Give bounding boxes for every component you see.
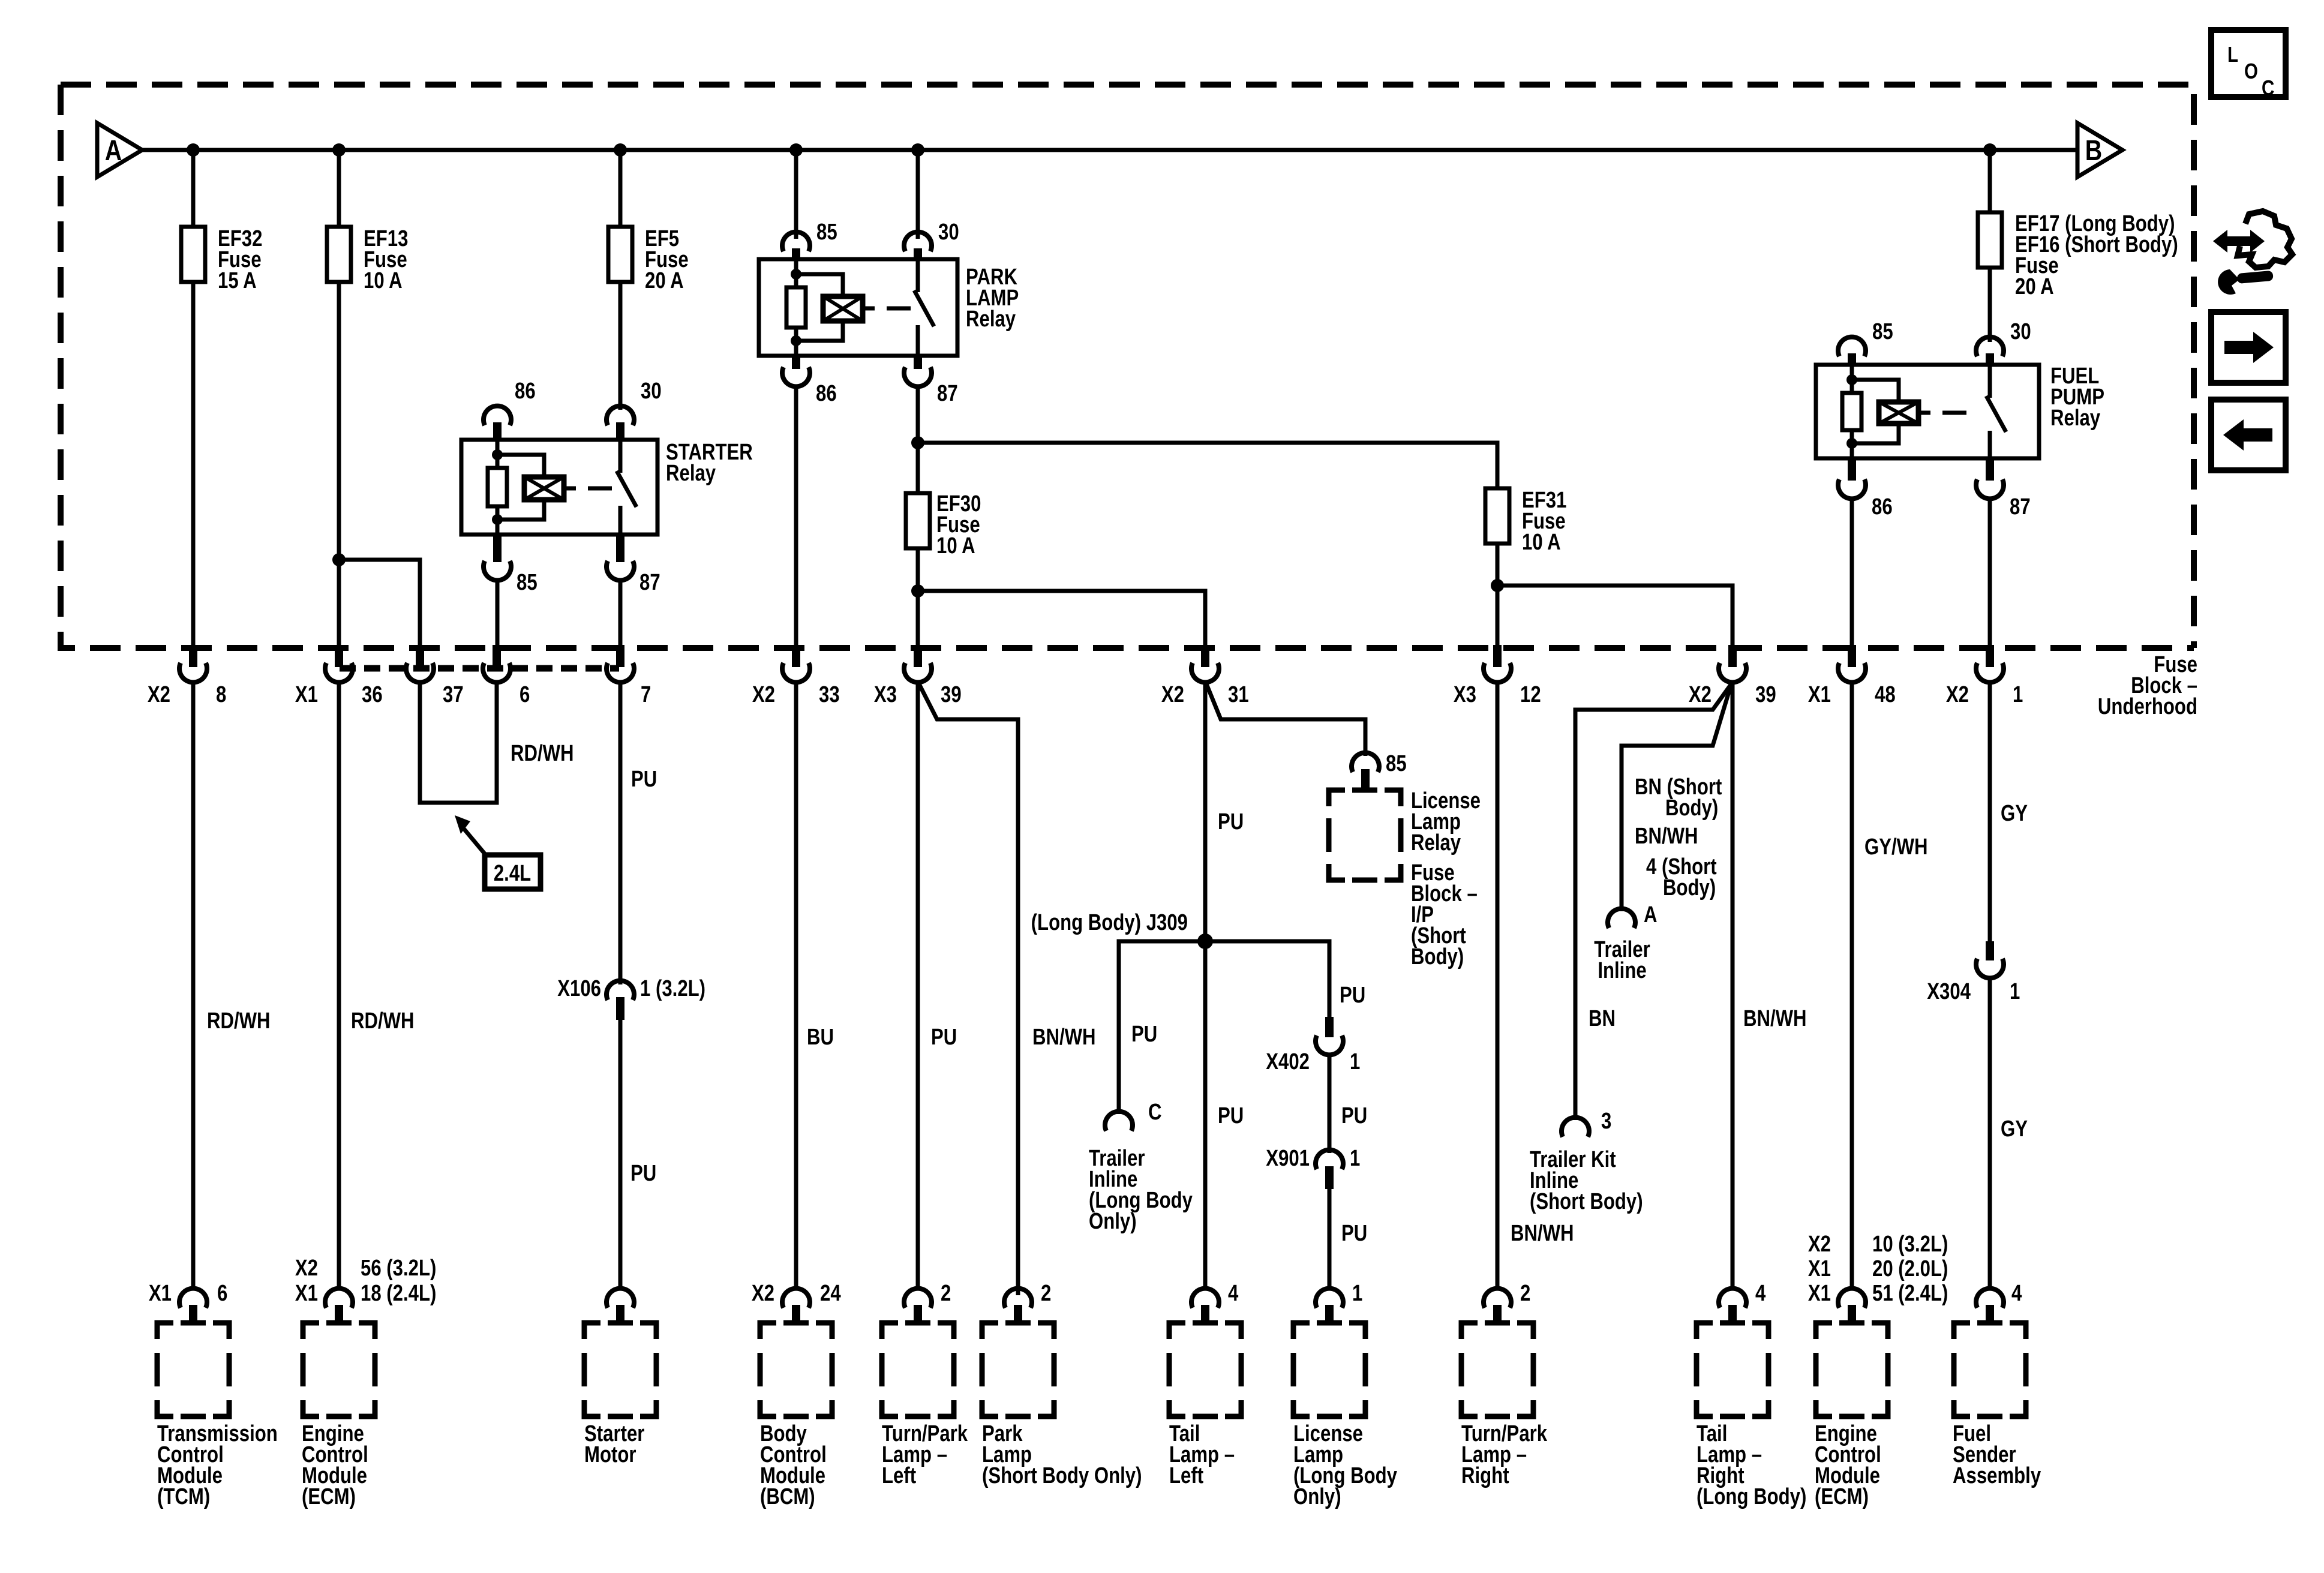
svg-text:37: 37	[443, 682, 464, 707]
svg-text:Left: Left	[1169, 1463, 1203, 1488]
starter relay pin 86 connector	[484, 406, 511, 425]
wire: X2-1 down, GY	[1988, 682, 1992, 941]
svg-text:(BCM): (BCM)	[760, 1484, 815, 1509]
svg-text:BN/WH: BN/WH	[1511, 1221, 1574, 1246]
backward reference arrow box	[2211, 400, 2286, 470]
wire: pin 7 to starter motor, PU	[618, 682, 623, 984]
svg-text:PU: PU	[1218, 1103, 1244, 1128]
svg-text:GY/WH: GY/WH	[1864, 834, 1928, 860]
wire: X304 to fuel sender, GY	[1988, 978, 1992, 1290]
STARTER Relay	[461, 440, 657, 535]
svg-text:(Long Body): (Long Body)	[1697, 1484, 1806, 1509]
svg-text:Relay: Relay	[1411, 830, 1461, 855]
junction node: relay87 branch to EF31	[911, 436, 924, 449]
svg-text:RD/WH: RD/WH	[351, 1008, 415, 1034]
connector X3 pin 12 (fuse block border)	[1493, 645, 1502, 667]
svg-text:X3: X3	[874, 682, 897, 707]
svg-text:X2: X2	[1808, 1232, 1831, 1257]
wire: bus to park lamp relay pin 30	[916, 150, 920, 239]
sub-connector dotted line (X1 connector row 36..7)	[340, 665, 619, 672]
connector X2 pin 8 (fuse block border)	[189, 645, 197, 667]
svg-text:C: C	[2262, 76, 2274, 100]
svg-text:86: 86	[816, 381, 837, 406]
wire: EF31 to connector X3-12	[1496, 544, 1500, 647]
Fuse Block - Underhood dashed enclosure	[61, 85, 2194, 648]
svg-text:2: 2	[1520, 1281, 1530, 1306]
wire: bus to fuse EF5	[618, 150, 623, 227]
wire: EF30 to connector X3-39	[916, 548, 920, 647]
wire: X1-48 to ECM, GY/WH	[1850, 682, 1854, 1290]
svg-text:PU: PU	[1131, 1022, 1157, 1047]
svg-text:B: B	[2085, 134, 2102, 167]
svg-text:1: 1	[1350, 1049, 1360, 1074]
svg-text:Underhood: Underhood	[2098, 694, 2197, 719]
svg-text:10 A: 10 A	[1522, 530, 1561, 555]
svg-text:Body): Body)	[1663, 875, 1716, 900]
svg-text:39: 39	[1755, 682, 1776, 707]
svg-text:GY: GY	[2001, 1116, 2028, 1142]
wire: relay85 to connector 6	[496, 580, 500, 647]
fuse EF32 15A	[181, 227, 205, 282]
FUEL PUMP Relay	[1816, 365, 2039, 458]
svg-text:X2: X2	[752, 1281, 774, 1306]
Turn/Park Lamp - Left	[882, 1323, 954, 1416]
svg-text:GY: GY	[2001, 801, 2028, 826]
svg-text:7: 7	[641, 682, 651, 707]
svg-text:PU: PU	[931, 1025, 957, 1050]
svg-text:56 (3.2L): 56 (3.2L)	[361, 1256, 436, 1281]
svg-text:X901: X901	[1266, 1146, 1310, 1171]
connector X2 pin 31 (fuse block border)	[1201, 645, 1209, 667]
wire: EF13 down to connector X1-36	[337, 282, 341, 647]
wire: X2-39 branch to trailer inline A, BN (short body)	[1622, 684, 1731, 911]
svg-text:18 (2.4L): 18 (2.4L)	[361, 1281, 436, 1306]
park lamp relay pin 85 connector	[782, 232, 810, 251]
wire: branch to EF31 fuse	[918, 443, 1497, 488]
svg-text:87: 87	[937, 381, 958, 406]
off-page arrow B	[2077, 123, 2122, 177]
fuse EF13 10A	[327, 227, 351, 282]
svg-text:X2: X2	[1161, 682, 1184, 707]
svg-text:20 A: 20 A	[645, 268, 684, 293]
svg-text:X3: X3	[1454, 682, 1476, 707]
inline connector X901 pin 1	[1316, 1150, 1343, 1169]
connector X2 pin 33 (fuse block border)	[792, 645, 800, 667]
wire: main power bus A to B	[142, 148, 2077, 152]
inline connector X304 pin 1	[1986, 941, 1994, 960]
junction node: EF13 output branch	[332, 553, 346, 566]
connector C trailer inline (long body only)	[1105, 1112, 1133, 1131]
svg-text:RD/WH: RD/WH	[511, 741, 574, 766]
svg-text:10 A: 10 A	[936, 533, 975, 559]
wire: X2-39 to tail lamp right, BN/WH	[1731, 682, 1735, 1290]
wire: fuse to fuel pump relay pin 30	[1988, 268, 1992, 342]
connector pin 37 (fuse block border)	[416, 645, 424, 667]
connector A trailer inline	[1608, 909, 1635, 928]
svg-text:12: 12	[1520, 682, 1541, 707]
wire: bus to fuse EF32	[191, 150, 196, 227]
svg-text:4: 4	[1755, 1281, 1766, 1306]
wire: X2-33 to BCM, BU	[794, 682, 798, 1290]
off-page arrow A	[97, 123, 142, 177]
fuel pump relay pin 30 connector	[1976, 337, 2004, 356]
svg-text:L: L	[2227, 42, 2238, 66]
wire: bus to fuse EF13	[337, 150, 341, 227]
license lamp relay pin 85 connector	[1352, 753, 1379, 772]
connector pin 6 (fuse block border)	[493, 645, 501, 667]
junction node on bus at x=3317	[1983, 143, 1996, 157]
junction node: EF30 output branch	[911, 584, 924, 598]
wire: relay86 to connector X2-33	[794, 386, 798, 647]
fuel pump relay pin 86 connector	[1848, 458, 1856, 481]
Park Lamp (Short Body Only)	[982, 1323, 1054, 1416]
svg-text:Left: Left	[882, 1463, 916, 1488]
wire: X402 to X901, PU	[1328, 1055, 1332, 1153]
service info icon (arrow + hood + wrench)	[2213, 230, 2265, 253]
svg-text:(Short Body Only): (Short Body Only)	[982, 1463, 1142, 1488]
park lamp relay pin 30 connector	[904, 232, 932, 251]
wire: J309 to trailer inline C, PU	[1119, 941, 1205, 1114]
svg-text:Relay: Relay	[966, 307, 1016, 332]
fuse EF5 20A	[608, 227, 632, 282]
svg-text:Only): Only)	[1089, 1209, 1137, 1234]
svg-text:BN/WH: BN/WH	[1635, 824, 1698, 849]
wire: branch to connector X2-39	[1497, 586, 1733, 647]
wire: X2-39 branch to trailer kit inline, BN	[1575, 684, 1731, 1120]
junction node on bus at x=565	[332, 143, 346, 157]
svg-text:30: 30	[2010, 319, 2031, 344]
svg-text:(ECM): (ECM)	[302, 1484, 356, 1509]
Engine Control Module (ECM) left	[303, 1323, 375, 1416]
wire: X106 to starter motor, PU	[618, 1020, 623, 1290]
svg-text:20 (2.0L): 20 (2.0L)	[1872, 1256, 1948, 1281]
Engine Control Module (ECM) right	[1816, 1323, 1888, 1416]
svg-text:BU: BU	[807, 1025, 834, 1050]
junction node on bus at x=1530	[911, 143, 924, 157]
svg-text:1: 1	[2013, 682, 2023, 707]
svg-text:3: 3	[1601, 1109, 1611, 1134]
wire: X901 to license lamp, PU	[1328, 1189, 1332, 1290]
svg-text:48: 48	[1875, 682, 1896, 707]
svg-text:87: 87	[2010, 494, 2031, 520]
svg-text:15 A: 15 A	[218, 268, 257, 293]
svg-text:86: 86	[1872, 494, 1893, 520]
starter relay pin 87 connector	[616, 535, 624, 562]
fuel pump relay pin 85 connector	[1838, 337, 1866, 356]
svg-text:1: 1	[2010, 979, 2020, 1004]
svg-text:Assembly: Assembly	[1953, 1463, 2041, 1488]
fuel pump relay pin 87 connector	[1986, 458, 1994, 481]
wire: relay87 to connector 7	[618, 580, 623, 647]
svg-text:X1: X1	[1808, 682, 1831, 707]
svg-text:PU: PU	[1218, 809, 1244, 834]
svg-text:85: 85	[816, 220, 837, 245]
svg-text:10 (3.2L): 10 (3.2L)	[1872, 1232, 1948, 1257]
inline connector X402 pin 1	[1325, 1017, 1334, 1037]
wire: X2-31 branch to license lamp relay 85	[1206, 684, 1365, 756]
wire: branch to connector X2-31	[918, 591, 1205, 647]
svg-text:X1: X1	[149, 1281, 172, 1306]
svg-text:86: 86	[515, 379, 536, 404]
connector X1 pin 48 (fuse block border)	[1848, 645, 1856, 667]
svg-text:Relay: Relay	[666, 461, 716, 486]
svg-text:BN/WH: BN/WH	[1743, 1006, 1807, 1031]
svg-text:PU: PU	[1340, 983, 1365, 1008]
Turn/Park Lamp - Right	[1461, 1323, 1533, 1416]
connector X1 pin 36 (fuse block border)	[335, 645, 343, 667]
svg-text:Body): Body)	[1411, 944, 1464, 969]
svg-text:BN/WH: BN/WH	[1032, 1025, 1096, 1050]
wire: branch to connector 37	[339, 560, 420, 647]
park lamp relay pin 87 connector	[914, 356, 922, 369]
svg-text:X1: X1	[295, 682, 318, 707]
wire: bus to park lamp relay pin 85	[794, 150, 798, 239]
Transmission Control Module (TCM)	[157, 1323, 229, 1416]
svg-text:4: 4	[1228, 1281, 1239, 1306]
wire: relay87 down to EF30	[916, 386, 920, 493]
wire: X1-36 to ECM, RD/WH	[337, 682, 341, 1290]
svg-text:C: C	[1148, 1100, 1162, 1125]
svg-text:2.4L: 2.4L	[494, 861, 531, 886]
wire: relay86 to connector X1-48	[1850, 499, 1854, 647]
svg-text:X1: X1	[1808, 1256, 1831, 1281]
svg-text:O: O	[2244, 59, 2258, 83]
svg-text:PU: PU	[630, 1161, 656, 1186]
svg-text:X2: X2	[1946, 682, 1969, 707]
LOC reference box	[2211, 30, 2286, 97]
svg-text:10 A: 10 A	[364, 268, 403, 293]
inline connector X106 pin 1 (3.2L)	[606, 981, 634, 1000]
wire: X2-8 to TCM, RD/WH	[191, 682, 196, 1290]
svg-text:36: 36	[362, 682, 383, 707]
svg-text:X106: X106	[557, 976, 601, 1001]
Fuel Sender Assembly	[1954, 1323, 2026, 1416]
svg-text:A: A	[105, 134, 122, 167]
wire: J309 to X402, PU	[1205, 941, 1329, 1017]
svg-text:RD/WH: RD/WH	[207, 1008, 271, 1034]
Body Control Module (BCM)	[760, 1323, 832, 1416]
junction node J309 (Long Body)	[1197, 933, 1213, 949]
starter relay pin 85 connector	[493, 535, 502, 562]
connector X2 pin 39 (fuse block border)	[1728, 645, 1737, 667]
svg-text:PU: PU	[1341, 1221, 1367, 1246]
svg-text:33: 33	[819, 682, 840, 707]
junction node on bus at x=1327	[789, 143, 803, 157]
junction node on bus at x=322	[187, 143, 200, 157]
svg-text:51 (2.4L): 51 (2.4L)	[1872, 1281, 1948, 1306]
wire: relay87 to connector X2-1	[1988, 499, 1992, 647]
forward reference arrow box	[2211, 312, 2286, 383]
svg-text:Motor: Motor	[584, 1442, 636, 1467]
svg-text:X304: X304	[1927, 979, 1971, 1004]
svg-text:PU: PU	[1341, 1103, 1367, 1128]
connector pin 7 (fuse block border)	[616, 645, 624, 667]
fuse EF17/EF16 20A	[1978, 212, 2002, 268]
svg-text:(Long Body) J309: (Long Body) J309	[1031, 910, 1188, 935]
wire: X3-39 to turn/park lamp left, PU	[916, 682, 920, 1290]
svg-text:A: A	[1644, 902, 1658, 927]
wire: bus to fuse EF17/EF16	[1988, 150, 1992, 212]
junction node: EF31 output branch	[1491, 579, 1504, 592]
connector 3 trailer kit inline (short body)	[1562, 1118, 1589, 1137]
svg-text:85: 85	[1386, 751, 1407, 776]
svg-text:(TCM): (TCM)	[157, 1484, 210, 1509]
svg-text:BN: BN	[1589, 1006, 1616, 1031]
svg-text:(ECM): (ECM)	[1815, 1484, 1869, 1509]
svg-text:X2: X2	[1689, 682, 1712, 707]
svg-text:2: 2	[941, 1281, 951, 1306]
svg-text:X2: X2	[752, 682, 775, 707]
svg-text:1: 1	[1350, 1146, 1360, 1171]
svg-text:X1: X1	[295, 1281, 318, 1306]
svg-text:Relay: Relay	[2050, 406, 2101, 431]
starter relay pin 30 connector	[606, 406, 634, 425]
connector X3 pin 39 (fuse block border)	[914, 645, 922, 667]
svg-text:Only): Only)	[1293, 1484, 1341, 1509]
License Lamp Relay (Fuse Block - I/P) dashed box	[1329, 790, 1401, 880]
svg-text:X2: X2	[148, 682, 170, 707]
svg-text:1 (3.2L): 1 (3.2L)	[640, 976, 705, 1001]
wire: 2.4L loop from 37 to 6, RD/WH	[420, 682, 497, 803]
PARK LAMP Relay	[759, 259, 957, 356]
svg-text:X2: X2	[295, 1256, 318, 1281]
wire: EF32 to connector X2-8	[191, 282, 196, 647]
wire: X3-39 branch to park lamp, BN/WH	[919, 684, 1018, 1295]
svg-text:X402: X402	[1266, 1049, 1310, 1074]
fuse EF30 10A	[906, 493, 930, 548]
svg-text:(Short Body): (Short Body)	[1530, 1189, 1643, 1214]
svg-text:30: 30	[641, 379, 662, 404]
svg-text:24: 24	[820, 1281, 841, 1306]
svg-text:85: 85	[1872, 319, 1893, 344]
svg-text:2: 2	[1041, 1281, 1051, 1306]
fuse EF31 10A	[1485, 488, 1509, 544]
svg-text:6: 6	[520, 682, 530, 707]
svg-text:6: 6	[217, 1281, 227, 1306]
svg-text:4: 4	[2011, 1281, 2022, 1306]
License Lamp (Long Body Only)	[1293, 1323, 1365, 1416]
svg-text:Right: Right	[1461, 1463, 1509, 1488]
svg-text:39: 39	[941, 682, 962, 707]
2.4L callout box with arrow	[463, 828, 488, 857]
Tail Lamp - Right (Long Body)	[1697, 1323, 1768, 1416]
Tail Lamp - Left	[1169, 1323, 1241, 1416]
junction node on bus at x=1034	[614, 143, 627, 157]
wire: X2-31 to tail lamp left, PU	[1203, 682, 1208, 1290]
svg-text:20 A: 20 A	[2015, 274, 2054, 299]
park lamp relay pin 86 connector	[792, 356, 800, 369]
svg-text:1: 1	[1352, 1281, 1362, 1306]
wire: EF5 to starter relay pin 30	[618, 282, 623, 410]
svg-text:30: 30	[938, 220, 959, 245]
svg-text:X1: X1	[1808, 1281, 1831, 1306]
wire: X3-12 to turn/park lamp right, BN/WH	[1496, 682, 1500, 1290]
svg-text:31: 31	[1228, 682, 1249, 707]
svg-text:85: 85	[517, 570, 538, 595]
svg-text:Body): Body)	[1665, 795, 1718, 821]
svg-text:8: 8	[216, 682, 226, 707]
Starter Motor	[584, 1323, 656, 1416]
svg-text:Inline: Inline	[1598, 958, 1646, 983]
svg-text:87: 87	[639, 570, 660, 595]
connector X2 pin 1 (fuse block border)	[1986, 645, 1994, 667]
svg-text:PU: PU	[631, 767, 657, 792]
